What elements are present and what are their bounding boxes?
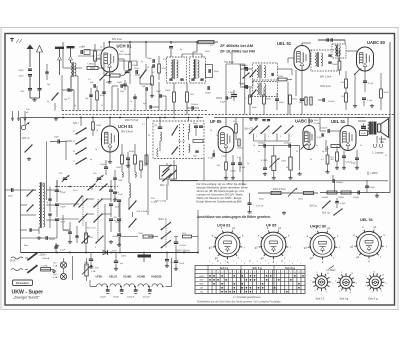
svg-text:160pF: 160pF [239,65,246,67]
svg-text:21pF: 21pF [61,207,66,209]
svg-text:70V 8mA: 70V 8mA [224,61,234,64]
svg-text:5000pF: 5000pF [336,182,344,184]
svg-text:82V 4mA: 82V 4mA [112,38,122,41]
svg-text:47: 47 [68,98,70,100]
svg-text:50pF: 50pF [147,58,152,60]
svg-text:160pF: 160pF [239,83,246,85]
svg-text:Sch I g: Sch I g [340,296,349,300]
svg-text:7: 7 [234,272,235,274]
svg-text:0,1A: 0,1A [53,276,58,279]
svg-text:1kΩ: 1kΩ [89,237,93,239]
svg-text:5000pF: 5000pF [258,143,266,145]
svg-text:10kΩ: 10kΩ [165,90,170,92]
svg-text:21pF: 21pF [134,68,139,70]
svg-text:1400: 1400 [19,76,25,78]
svg-text:0,1: 0,1 [142,124,145,126]
svg-text:g1: g1 [217,261,219,263]
svg-text:T 1/4 A: T 1/4 A [41,265,48,268]
svg-text:Sch III g: Sch III g [285,266,295,270]
svg-text:30: 30 [147,67,149,69]
svg-text:+165V: +165V [370,171,378,175]
svg-text:1n: 1n [385,155,387,157]
svg-text:100V 0,4mA: 100V 0,4mA [273,188,286,191]
svg-text:5p: 5p [141,61,143,63]
svg-text:10µF: 10µF [118,194,123,196]
svg-text:10: 10 [294,272,296,274]
svg-text:5k: 5k [233,121,235,123]
svg-text:5p: 5p [74,105,76,107]
svg-text:Sch I 2: Sch I 2 [316,296,325,300]
svg-text:0,1mA: 0,1mA [314,122,321,125]
svg-text:einzigen Meßwerte gehen dersel: einzigen Meßwerte gehen derselben Werte [197,186,249,190]
svg-text:Sch I: Sch I [73,190,78,192]
svg-text:≡ = Kontakt geschlossen: ≡ = Kontakt geschlossen [233,296,261,299]
svg-text:0,1µF: 0,1µF [208,158,214,160]
svg-text:50kΩ: 50kΩ [259,199,264,201]
svg-text:1n: 1n [95,149,97,151]
svg-text:mit Motor: mit Motor [326,269,336,272]
svg-text:Schaltstellen aus der Sicht-Se: Schaltstellen aus der Sicht-Seite des Ge… [197,301,282,304]
svg-text:1n: 1n [56,94,58,96]
svg-text:Sch I g: Sch I g [310,206,318,208]
svg-text:5: 5 [226,272,227,274]
svg-text:2000pF: 2000pF [191,104,199,106]
svg-text:k: k [225,261,226,263]
svg-text:1: 1 [260,263,261,265]
svg-text:4: 4 [222,272,223,274]
svg-text:Sch I 1: Sch I 1 [159,218,167,221]
svg-text:UF85: UF85 [96,275,103,279]
svg-text:90V 5,4mA: 90V 5,4mA [121,131,133,134]
svg-text:0,4: 0,4 [82,46,85,48]
svg-text:4: 4 [270,272,271,274]
svg-text:UCH 81: UCH 81 [217,224,231,228]
svg-text:~350mA: ~350mA [41,257,50,260]
svg-text:10: 10 [245,272,247,274]
svg-text:2p: 2p [360,145,362,147]
svg-text:UEL 51: UEL 51 [331,119,346,124]
svg-text:500µF: 500µF [100,297,107,299]
svg-text:150: 150 [154,125,157,127]
svg-text:messen mit Instrument 333 Ω/V: messen mit Instrument 333 Ω/V. Werte [197,193,244,197]
svg-text:2k: 2k [101,105,103,107]
svg-text:71kΩ: 71kΩ [138,233,143,235]
svg-text:UCH81: UCH81 [137,275,146,279]
svg-text:MΩ: MΩ [331,159,335,161]
svg-text:2. Lautspr.: 2. Lautspr. [372,151,384,155]
svg-text:100pF: 100pF [129,151,135,153]
svg-text:1kΩ: 1kΩ [120,51,124,53]
svg-text:12: 12 [254,272,256,274]
svg-text:200kΩ: 200kΩ [338,197,345,199]
svg-text:240V: 240V [112,251,117,253]
svg-text:MΩ: MΩ [299,102,303,104]
svg-text:50µF: 50µF [279,102,285,104]
svg-text:s: s [289,261,290,263]
svg-text:50kΩ: 50kΩ [298,199,303,201]
svg-text:5000pF: 5000pF [320,128,328,130]
svg-text:200µF: 200µF [113,297,120,299]
svg-text:90V 4,8mA: 90V 4,8mA [119,53,130,56]
svg-text:300pF: 300pF [49,239,56,241]
svg-text:9,8µF: 9,8µF [220,102,226,104]
svg-text:30: 30 [310,159,312,161]
svg-text:Sch II g: Sch II g [252,266,262,270]
svg-text:50µF: 50µF [252,107,258,109]
svg-text:5000µF: 5000µF [127,297,135,299]
svg-text:Dresden: Dresden [16,281,28,285]
svg-text:11: 11 [250,272,252,274]
svg-text:0,01µF: 0,01µF [328,101,335,103]
svg-text:3: 3 [266,272,267,274]
svg-text:0,5µF: 0,5µF [340,203,346,205]
svg-text:Sch I g: Sch I g [220,266,229,270]
svg-text:s: s [241,261,242,263]
svg-text:Sch II 5: Sch II 5 [178,141,186,143]
svg-text:Sch I g: Sch I g [322,212,330,215]
svg-text:1: 1 [210,272,211,274]
svg-text:200V 5,7mA: 200V 5,7mA [125,119,139,122]
svg-text:1M: 1M [341,96,344,98]
svg-text:2p: 2p [247,163,249,165]
svg-text:30- 47Ω: 30- 47Ω [91,268,99,270]
svg-text:500pF: 500pF [353,197,360,199]
svg-text:0,3A: 0,3A [91,270,96,273]
svg-text:10kΩ: 10kΩ [292,99,297,101]
svg-text:0,1A: 0,1A [53,265,58,268]
svg-text:Netz: Netz [24,244,28,247]
svg-text:0,1: 0,1 [210,45,213,47]
svg-text:UCH81: UCH81 [123,275,132,279]
svg-text:10µF: 10µF [118,180,123,182]
svg-text:9: 9 [95,247,96,249]
svg-text:50 W: 50 W [10,261,16,263]
svg-text:90V 5,2mA: 90V 5,2mA [155,200,166,203]
svg-text:UF 85: UF 85 [210,119,222,124]
svg-text:2k: 2k [258,151,260,153]
svg-text:5600: 5600 [19,70,25,72]
svg-text:7: 7 [276,263,277,265]
svg-text:20kΩ: 20kΩ [116,167,121,169]
svg-text:100V: 100V [314,120,319,122]
svg-text:1kΩ: 1kΩ [190,94,194,96]
svg-text:Sch I 1: Sch I 1 [160,185,168,187]
svg-text:UABC 80: UABC 80 [367,40,386,45]
svg-text:9,8µF: 9,8µF [228,92,234,94]
svg-text:600Ω: 600Ω [278,76,283,78]
svg-text:UEL51: UEL51 [109,275,118,279]
svg-text:0,1µF: 0,1µF [367,100,373,102]
svg-text:1n: 1n [316,145,318,147]
svg-text:50µF: 50µF [351,163,357,165]
svg-text:Anschlüsse von unten-gegen die: Anschlüsse von unten-gegen die Röhre ges… [197,215,271,219]
svg-text:1: 1 [212,263,213,265]
svg-text:18V: 18V [53,274,57,276]
svg-text:Sch I 2: Sch I 2 [22,137,30,140]
svg-text:UEL 51: UEL 51 [277,41,292,46]
svg-text:0,15 µF: 0,15 µF [256,206,264,208]
svg-text:4: 4 [292,263,293,265]
svg-text:g3: g3 [281,261,283,263]
svg-text:9: 9 [290,272,291,274]
svg-text:Sch II 10: Sch II 10 [87,228,96,230]
svg-text:4: 4 [244,263,245,265]
svg-text:+163V 160mA: +163V 160mA [175,250,190,253]
svg-text:1n: 1n [130,101,132,103]
svg-text:2: 2 [262,272,263,274]
svg-text:9: 9 [242,272,243,274]
svg-text:Einige Werte bei Schalterstell: Einige Werte bei Schalterstellung MW. [197,199,243,203]
svg-text:4p: 4p [47,101,49,103]
svg-text:16V: 16V [53,263,57,265]
svg-text:2: 2 [214,272,215,274]
svg-text:11: 11 [298,272,300,274]
svg-text:90V 4,3mA: 90V 4,3mA [137,210,148,213]
svg-text:0,4: 0,4 [106,82,109,84]
svg-text:g2: g2 [249,261,251,263]
svg-text:200µF: 200µF [100,164,107,166]
svg-text:7: 7 [252,263,253,265]
svg-text:7: 7 [282,272,283,274]
svg-text:ZF 460kHz bei AM: ZF 460kHz bei AM [220,43,253,48]
svg-text:Werte mit Toleranz von ±20% ,: Werte mit Toleranz von ±20% , Einige [197,196,242,200]
svg-text:UABC 80: UABC 80 [310,225,326,229]
svg-text:4p: 4p [90,159,92,161]
svg-text:20µF: 20µF [180,263,185,265]
svg-text:1,5kΩ: 1,5kΩ [96,125,102,127]
svg-text:UCH 81: UCH 81 [118,124,134,129]
svg-text:50: 50 [286,167,288,169]
svg-text:Sch I: Sch I [73,122,79,125]
svg-text:Für Orts-entfang: Ug ca. 150V,: Für Orts-entfang: Ug ca. 150V, die übrig… [197,182,248,186]
svg-text:UABC 80: UABC 80 [295,119,314,124]
svg-text:4: 4 [220,263,221,265]
svg-text:4p: 4p [322,151,324,153]
svg-text:8: 8 [238,272,239,274]
svg-text:30pF: 30pF [8,196,13,198]
svg-text:10kΩ: 10kΩ [162,68,167,70]
svg-text:1: 1 [284,263,285,265]
svg-text:47k: 47k [163,59,166,61]
svg-text:UABC80: UABC80 [151,275,162,279]
svg-text:2p: 2p [96,130,98,132]
svg-text:6: 6 [278,272,279,274]
svg-text:7: 7 [228,263,229,265]
svg-text:12: 12 [302,272,304,274]
svg-text:2k: 2k [148,135,150,137]
svg-text:0,5MΩ: 0,5MΩ [261,160,268,162]
svg-text:k: k [265,261,266,263]
svg-text:0,1µF: 0,1µF [60,250,66,252]
svg-text:4: 4 [268,263,269,265]
svg-text:50pF: 50pF [117,82,122,84]
svg-text:1,5kΩ: 1,5kΩ [132,65,138,67]
svg-text:1: 1 [258,272,259,274]
svg-text:50: 50 [100,47,102,49]
svg-text:„Zwerger 5und2“: „Zwerger 5und2“ [13,296,40,300]
svg-text:3: 3 [218,272,219,274]
svg-text:7-38kΩ: 7-38kΩ [87,64,94,66]
svg-text:4kΩ: 4kΩ [380,141,385,144]
svg-text:50: 50 [210,130,212,132]
svg-text:5p: 5p [253,145,255,147]
svg-text:1: 1 [236,263,237,265]
svg-text:1kΩ: 1kΩ [325,149,329,151]
svg-text:1MΩ: 1MΩ [266,99,271,101]
svg-text:9,1: 9,1 [88,79,91,81]
svg-text:8: 8 [286,272,287,274]
svg-text:4,5pF: 4,5pF [61,192,67,194]
svg-text:500pF: 500pF [205,93,212,95]
svg-text:1kΩ: 1kΩ [182,233,186,235]
svg-text:1001µF: 1001µF [143,297,151,299]
svg-text:5000pF: 5000pF [284,143,292,145]
svg-text:50pF: 50pF [54,137,59,139]
svg-text:0,07µF: 0,07µF [180,245,187,247]
svg-text:400µF: 400µF [113,236,119,238]
svg-text:Sch II g: Sch II g [368,296,378,300]
svg-text:50: 50 [296,151,298,153]
svg-text:7: 7 [300,263,301,265]
svg-text:30kΩ: 30kΩ [205,51,210,53]
svg-text:50kΩ: 50kΩ [332,64,337,66]
svg-text:ZF 10,7MHz bei FM: ZF 10,7MHz bei FM [220,49,255,54]
svg-text:6: 6 [230,272,231,274]
svg-text:UEL 51: UEL 51 [360,218,373,222]
svg-text:13pF: 13pF [214,71,219,73]
svg-text:104V 4mA: 104V 4mA [320,85,331,88]
svg-text:98V 1,3mA: 98V 1,3mA [320,76,332,79]
svg-text:stimmt an µB. Mit Spannungele: stimmt an µB. Mit Spannungele ge- und [197,189,245,193]
svg-text:2p: 2p [165,73,167,75]
svg-text:500pF: 500pF [369,187,376,189]
svg-text:0,1µF: 0,1µF [317,137,323,139]
svg-text:240V: 240V [121,255,127,257]
svg-text:160kΩ: 160kΩ [237,148,243,150]
svg-text:0,1: 0,1 [237,157,240,159]
svg-text:50 µF: 50 µF [368,83,374,85]
svg-text:50kΩ: 50kΩ [384,92,389,94]
svg-text:12 µA: 12 µA [361,132,367,135]
svg-text:220V~: 220V~ [40,254,48,257]
svg-text:5: 5 [274,272,275,274]
svg-text:600kΩ: 600kΩ [322,197,329,199]
svg-text:15kΩ: 15kΩ [281,161,286,163]
